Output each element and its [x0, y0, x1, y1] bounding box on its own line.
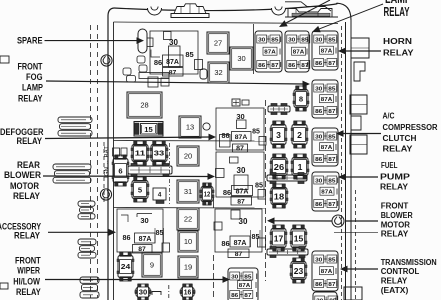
svg-text:87A: 87A — [321, 190, 332, 196]
svg-text:RELAY: RELAY — [17, 136, 43, 146]
svg-text:WIPER: WIPER — [17, 266, 40, 276]
svg-text:2: 2 — [297, 130, 302, 140]
svg-text:85: 85 — [252, 129, 260, 136]
svg-text:87: 87 — [328, 109, 335, 115]
svg-text:13: 13 — [186, 123, 194, 132]
svg-text:RELAY: RELAY — [18, 94, 43, 104]
svg-text:87A: 87A — [321, 49, 332, 55]
svg-text:LAMP: LAMP — [22, 83, 43, 93]
svg-text:HORN: HORN — [383, 36, 412, 46]
svg-text:10: 10 — [184, 237, 192, 246]
svg-text:RELAY: RELAY — [383, 48, 414, 58]
svg-text:87: 87 — [328, 282, 335, 288]
svg-text:(EATX): (EATX) — [381, 285, 409, 295]
svg-text:31: 31 — [184, 187, 192, 196]
svg-text:87: 87 — [169, 70, 177, 77]
svg-text:FRONT: FRONT — [15, 256, 41, 266]
svg-text:85: 85 — [328, 134, 335, 140]
svg-text:3: 3 — [276, 130, 281, 140]
svg-text:RELAY: RELAY — [384, 4, 410, 19]
svg-text:MOTOR: MOTOR — [10, 181, 39, 191]
svg-text:16: 16 — [184, 290, 192, 297]
svg-text:RELAY: RELAY — [380, 182, 408, 192]
svg-text:BLOWER: BLOWER — [381, 210, 414, 220]
svg-text:87A: 87A — [321, 145, 332, 151]
svg-text:8: 8 — [299, 94, 303, 103]
svg-text:30: 30 — [315, 86, 322, 92]
svg-text:FOG: FOG — [26, 72, 43, 82]
svg-text:87: 87 — [244, 293, 251, 299]
svg-text:85: 85 — [255, 181, 263, 190]
svg-text:20: 20 — [184, 152, 192, 161]
svg-text:11: 11 — [135, 149, 145, 158]
svg-text:FRONT: FRONT — [381, 201, 409, 211]
svg-text:SPARE: SPARE — [17, 36, 43, 46]
svg-text:17: 17 — [274, 233, 284, 243]
svg-text:30: 30 — [288, 37, 295, 43]
svg-text:86: 86 — [315, 157, 322, 163]
svg-text:12: 12 — [204, 192, 211, 199]
svg-text:15: 15 — [144, 125, 153, 134]
svg-text:86: 86 — [315, 61, 322, 67]
svg-text:22: 22 — [184, 215, 192, 224]
svg-text:HI/LOW: HI/LOW — [13, 277, 40, 287]
svg-text:19: 19 — [184, 263, 192, 272]
svg-text:30: 30 — [239, 217, 248, 226]
svg-text:86: 86 — [231, 293, 238, 299]
svg-text:87A: 87A — [321, 97, 332, 103]
svg-text:86: 86 — [154, 58, 162, 67]
svg-text:32: 32 — [214, 68, 222, 77]
svg-text:87: 87 — [138, 246, 146, 253]
svg-text:4: 4 — [158, 192, 162, 199]
svg-text:30: 30 — [139, 290, 148, 297]
svg-text:85: 85 — [328, 37, 335, 43]
svg-text:85: 85 — [271, 37, 278, 43]
svg-text:RELAY: RELAY — [383, 144, 413, 154]
svg-text:24: 24 — [121, 262, 131, 271]
svg-text:RELAY: RELAY — [13, 191, 41, 201]
svg-text:RELAY: RELAY — [381, 229, 409, 239]
svg-text:30: 30 — [315, 257, 322, 263]
svg-text:30: 30 — [231, 274, 238, 280]
svg-text:87A: 87A — [293, 50, 304, 56]
svg-text:85: 85 — [252, 232, 260, 241]
svg-text:CLUTCH: CLUTCH — [383, 133, 417, 143]
svg-text:30: 30 — [315, 134, 322, 140]
svg-text:87: 87 — [328, 202, 335, 208]
svg-text:87A: 87A — [235, 134, 248, 141]
svg-text:9: 9 — [150, 261, 154, 270]
svg-text:6: 6 — [118, 166, 122, 175]
svg-text:86: 86 — [258, 63, 265, 69]
svg-text:REAR: REAR — [17, 160, 40, 170]
svg-text:A/C: A/C — [383, 111, 395, 121]
svg-text:26: 26 — [274, 162, 285, 172]
svg-text:CONTROL: CONTROL — [381, 266, 420, 276]
svg-text:86: 86 — [315, 109, 322, 115]
svg-text:86: 86 — [315, 202, 322, 208]
svg-text:85: 85 — [328, 86, 335, 92]
svg-text:85: 85 — [328, 257, 335, 263]
svg-text:15: 15 — [294, 233, 304, 243]
svg-text:87: 87 — [236, 146, 244, 153]
svg-text:85: 85 — [185, 50, 193, 59]
svg-text:18: 18 — [274, 191, 285, 201]
svg-text:87A: 87A — [234, 240, 247, 247]
svg-text:FRONT: FRONT — [18, 62, 43, 72]
svg-text:87: 87 — [271, 63, 278, 69]
svg-text:85: 85 — [328, 178, 335, 184]
svg-text:30: 30 — [237, 54, 245, 63]
svg-text:86: 86 — [222, 131, 230, 140]
svg-text:86: 86 — [315, 282, 322, 288]
svg-text:COMPRESSOR: COMPRESSOR — [383, 122, 439, 132]
svg-text:85: 85 — [156, 230, 164, 237]
svg-text:87A: 87A — [321, 269, 332, 275]
svg-text:86: 86 — [123, 233, 131, 242]
svg-text:86: 86 — [223, 188, 231, 197]
svg-text:30: 30 — [237, 166, 246, 175]
svg-text:85: 85 — [244, 274, 251, 280]
svg-text:86: 86 — [221, 239, 229, 248]
svg-text:RELAY: RELAY — [381, 276, 408, 286]
svg-text:23: 23 — [294, 266, 304, 276]
svg-text:RELAY: RELAY — [14, 231, 41, 241]
svg-text:PUMP: PUMP — [380, 172, 410, 182]
svg-text:33: 33 — [154, 149, 164, 158]
svg-text:87: 87 — [235, 251, 243, 258]
svg-text:BLOWER: BLOWER — [4, 170, 41, 180]
svg-text:27: 27 — [214, 39, 222, 48]
svg-text:30: 30 — [140, 216, 148, 225]
svg-text:87A: 87A — [236, 189, 249, 196]
svg-text:87A: 87A — [264, 50, 275, 56]
svg-text:30: 30 — [315, 37, 322, 43]
svg-text:87A: 87A — [239, 283, 250, 289]
svg-text:30: 30 — [315, 178, 322, 184]
svg-text:28: 28 — [140, 101, 148, 110]
svg-text:1: 1 — [298, 162, 303, 172]
svg-text:RELAY: RELAY — [16, 287, 41, 297]
svg-text:87A: 87A — [139, 236, 152, 243]
svg-text:87: 87 — [328, 157, 335, 163]
svg-text:86: 86 — [288, 63, 295, 69]
svg-text:30: 30 — [258, 37, 265, 43]
svg-text:87A: 87A — [166, 59, 179, 66]
svg-text:FUEL: FUEL — [381, 160, 398, 170]
svg-text:87: 87 — [237, 199, 245, 206]
svg-text:87: 87 — [328, 61, 335, 67]
svg-text:IGN ↔ BAT: IGN ↔ BAT — [105, 146, 111, 178]
